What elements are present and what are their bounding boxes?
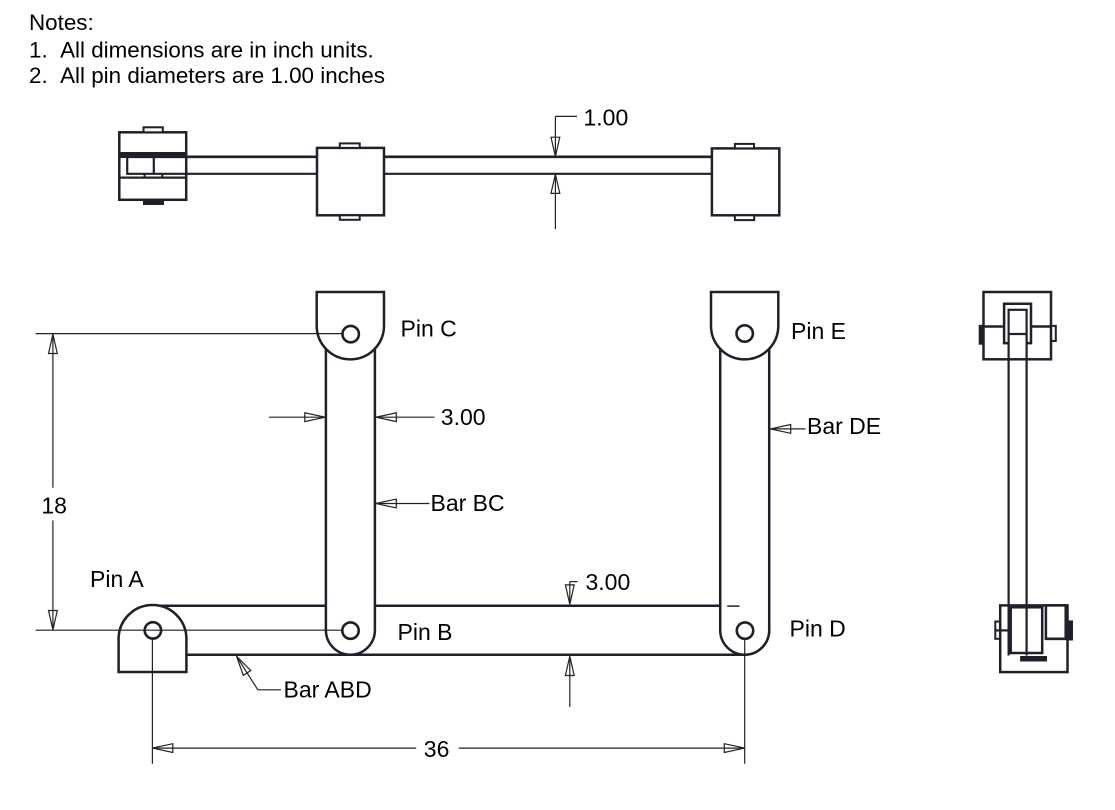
pin A tick below bar left xyxy=(144,174,146,178)
left block bottom pin tab (solid) xyxy=(144,200,164,205)
dimension 3.00 (bar BC width) xyxy=(269,413,435,422)
right block (bar DE end, plan) xyxy=(712,148,779,215)
bottom block inner slot xyxy=(1011,607,1042,653)
arrow right xyxy=(724,744,744,753)
arrow up xyxy=(49,334,58,353)
middle block bottom pin tab xyxy=(340,215,360,220)
svg-text:Pin B: Pin B xyxy=(398,619,453,645)
extension below pin D xyxy=(744,639,746,764)
bar ABD left end xyxy=(126,156,128,175)
pin C hole xyxy=(343,326,359,342)
clevis slot top edge merged with bar top edge (thick band) xyxy=(119,152,186,158)
top block mid split line xyxy=(984,325,1052,327)
left block top pin tab xyxy=(144,127,163,132)
dim line left segment xyxy=(152,747,416,749)
svg-text:Bar DE: Bar DE xyxy=(807,413,881,439)
top block right pin tab xyxy=(1051,326,1056,341)
bottom block right thick line xyxy=(1046,637,1068,640)
svg-text:Pin E: Pin E xyxy=(791,318,846,344)
pin C head xyxy=(317,292,384,359)
bottom block left pin tab xyxy=(995,622,1000,639)
svg-text:2. All pin diameters are 1.00: 2. All pin diameters are 1.00 inches xyxy=(29,63,385,88)
top block inner slot (U) xyxy=(1004,304,1031,343)
bar ABD plan top edge xyxy=(127,156,712,159)
bar ABD hidden edge dash inside bar DE xyxy=(727,605,739,607)
clevis slot bottom edge xyxy=(119,177,186,179)
bar DE edge-on right line xyxy=(1025,335,1027,656)
pin A head (dome) xyxy=(119,605,187,672)
svg-text:3.00: 3.00 xyxy=(441,404,486,430)
right block bottom pin tab xyxy=(735,215,754,220)
top block bar end cap xyxy=(1009,310,1027,334)
top block left pin tab (solid) xyxy=(979,325,983,344)
dim line right segment xyxy=(459,747,745,749)
bottom block right inner rect xyxy=(1046,605,1066,638)
pin D hole xyxy=(737,622,753,638)
right block top pin tab xyxy=(735,144,754,149)
svg-text:3.00: 3.00 xyxy=(586,569,631,595)
bar DE (vertical stadium D to E) xyxy=(720,309,769,655)
bottom block right pin tab (solid) xyxy=(1068,621,1073,640)
extension line through pin A to pin B xyxy=(36,629,343,631)
svg-text:Bar ABD: Bar ABD xyxy=(284,677,372,703)
svg-text:1.00: 1.00 xyxy=(584,105,629,131)
svg-text:18: 18 xyxy=(41,492,67,518)
dimension 3.00 (bar ABD width) xyxy=(565,582,577,707)
svg-text:Pin D: Pin D xyxy=(790,616,846,642)
bar ABD plan bottom edge xyxy=(127,173,712,175)
svg-text:1. All dimensions are in inch: 1. All dimensions are in inch units. xyxy=(29,37,374,62)
side view bottom block xyxy=(1000,605,1067,672)
bottom block mid-left line xyxy=(995,629,1010,631)
notes text block xyxy=(29,10,385,88)
pin B hole xyxy=(342,622,358,638)
dimension 36 horizontal xyxy=(152,639,744,764)
label Bar DE with leader xyxy=(770,425,805,434)
dim line upper segment xyxy=(52,334,54,488)
bar ABD (horizontal stadium A to D) xyxy=(128,606,769,655)
svg-text:Pin C: Pin C xyxy=(401,316,457,342)
middle block top pin tab xyxy=(340,143,360,148)
bar ABD bottom edge repaint under pin B xyxy=(326,653,375,656)
dimension 1.00 (top view bar thickness) xyxy=(551,116,577,229)
svg-text:Pin A: Pin A xyxy=(90,566,144,592)
bar DE edge-on left line xyxy=(1007,335,1009,656)
dimension 18 vertical xyxy=(36,334,343,631)
svg-text:Bar BC: Bar BC xyxy=(431,490,505,516)
label Bar BC with leader xyxy=(376,499,430,508)
arrow left xyxy=(152,744,172,753)
pin A hole xyxy=(145,622,161,638)
extension below pin A xyxy=(151,639,153,764)
arrow down xyxy=(49,611,58,630)
pin A hidden edge in slot xyxy=(153,158,155,174)
pin E hole xyxy=(737,325,753,341)
pin E head xyxy=(711,292,778,359)
side view top clevis block xyxy=(984,292,1052,359)
svg-text:Notes:: Notes: xyxy=(29,10,94,35)
pin A tick below bar right xyxy=(161,174,163,178)
dim line lower segment xyxy=(52,520,54,629)
left clevis block (pin A end, plan) xyxy=(119,132,186,200)
middle block (bar BC end, plan) xyxy=(317,148,384,215)
label Bar ABD with leader xyxy=(237,656,282,690)
svg-text:36: 36 xyxy=(424,736,450,762)
bottom block bottom step (solid) xyxy=(1021,657,1047,662)
bar BC (vertical stadium B to C) xyxy=(326,309,375,655)
extension line through pin C xyxy=(36,333,342,335)
